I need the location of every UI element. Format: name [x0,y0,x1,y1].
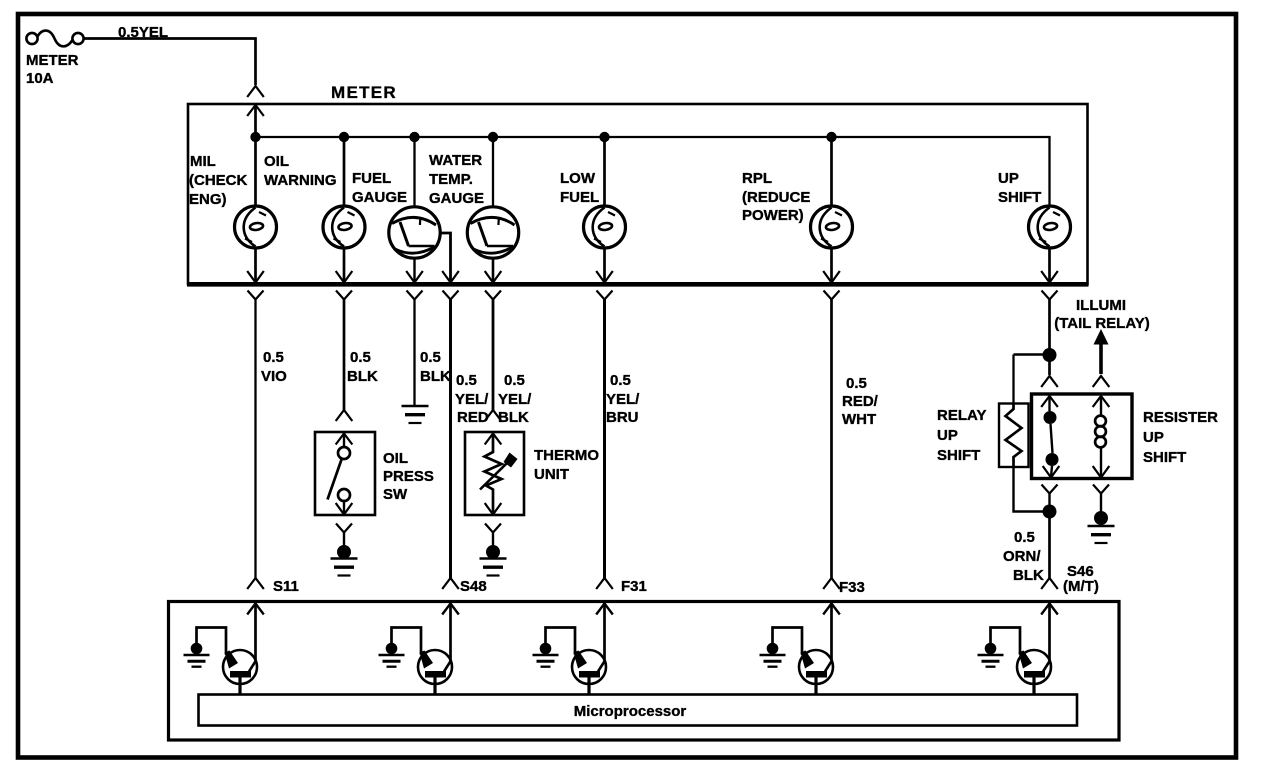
svg-text:0.5: 0.5 [504,372,525,389]
svg-text:0.5: 0.5 [1014,529,1035,546]
transistor Q2 (S48 driver) with base ground [379,603,459,696]
wire 0.5 YEL/BLK to thermo unit [492,299,495,410]
svg-text:GAUGE: GAUGE [429,190,484,207]
lamp MIL (CHECK ENG) [235,206,277,248]
ground (meter case) [402,406,429,423]
connector (male) arrow into METER box [247,105,264,116]
wire 0.5YEL from fuse to METER box [84,39,256,86]
connector below thermo unit [485,524,501,533]
connector below box ground wire [407,291,423,300]
wire OIL WARNING lamp to box edge [343,247,346,282]
svg-text:(CHECK: (CHECK [189,172,247,189]
svg-text:0.5: 0.5 [420,349,441,366]
lamp OIL WARNING [323,206,365,248]
transistor Q5 (S46 driver) with base ground [978,603,1058,696]
connector below box wire F33 [824,291,840,300]
svg-text:METER: METER [26,52,79,69]
ground ball thermo [486,545,500,559]
lamp UP SHIFT [1029,206,1071,248]
svg-text:SHIFT: SHIFT [1143,449,1186,466]
svg-text:YEL/: YEL/ [606,391,640,408]
wire 0.5 BLK to ground [413,299,415,405]
svg-text:SHIFT: SHIFT [998,189,1041,206]
wire bus to RPL lamp [830,137,833,207]
OIL PRESS SW box [315,432,375,515]
transistor Q4 (F33 driver) with base ground [760,603,840,696]
wire up shift ball to register connector [1048,361,1051,375]
gauge WATER TEMP. GAUGE [467,207,518,258]
svg-text:RESISTER: RESISTER [1143,409,1218,426]
ground oil press [331,559,358,576]
wire register right to ground [1100,494,1102,513]
svg-text:YEL/: YEL/ [498,391,532,408]
transistor Q3 (F31 driver) with base ground [533,603,613,696]
svg-text:ILLUMI: ILLUMI [1076,297,1126,314]
svg-text:0.5: 0.5 [350,349,371,366]
connector above register box left [1041,376,1058,387]
svg-text:10A: 10A [26,70,54,87]
wire register to lower ball [1048,494,1050,506]
svg-text:METER: METER [331,83,397,102]
svg-text:RELAY: RELAY [937,407,986,424]
wire MIL lamp to box edge [254,247,257,282]
svg-text:BLK: BLK [420,368,451,385]
wire up shift lamp to relay node [1048,299,1051,349]
METER box [188,104,1088,284]
svg-text:BLK: BLK [498,409,529,426]
connector below box wire up shift [1042,291,1058,300]
svg-text:S48: S48 [460,578,487,595]
ground ball register [1094,511,1108,525]
wire bus to MIL lamp [254,137,257,207]
svg-text:TEMP.: TEMP. [429,171,473,188]
register REGISTER UP SHIFT box [1032,394,1133,479]
svg-text:VIO: VIO [261,368,287,385]
svg-text:RPL: RPL [742,170,772,187]
ground thermo [480,559,507,576]
wire relay branch horizontal top [1014,353,1047,355]
wire 0.5 RED/WHT [830,299,833,578]
wire to ground ball [343,533,345,547]
connector below box wire oil press [336,291,352,300]
THERMO UNIT entry arrow [485,434,502,445]
node junction dots on bus [250,132,260,142]
wire 0.5 VIO [254,299,256,578]
svg-text:WHT: WHT [842,411,876,428]
svg-text:SHIFT: SHIFT [937,447,980,464]
wire FUEL GAUGE right tap [440,233,451,282]
wire RPL lamp to box edge [830,247,833,282]
svg-text:GAUGE: GAUGE [352,189,407,206]
Microprocessor box [169,602,1120,741]
svg-text:(REDUCE: (REDUCE [742,189,810,206]
svg-text:F33: F33 [839,579,865,596]
svg-text:FUEL: FUEL [352,170,391,187]
connector (female) at METER box top [247,86,264,97]
THERMO UNIT box [465,432,524,515]
svg-text:UP: UP [937,427,958,444]
wire 0.5 YEL/RED [449,299,452,578]
fuse METER 10A [26,31,83,47]
svg-text:THERMO: THERMO [534,447,599,464]
svg-text:(TAIL RELAY): (TAIL RELAY) [1054,315,1150,332]
node ball orn/blk [1043,505,1057,519]
register entry arrow right [1093,396,1110,407]
svg-text:0.5: 0.5 [846,375,867,392]
bus wire inside METER [256,137,1050,207]
wire from entry to bus [254,105,257,137]
svg-text:BLK: BLK [347,368,378,385]
svg-text:(M/T): (M/T) [1063,578,1099,595]
svg-text:UP: UP [1143,429,1164,446]
node ball up shift / relay branch [1043,348,1057,362]
ground register [1088,526,1115,543]
connector into microprocessor F33 [823,578,840,589]
connector below box wire thermo [485,291,501,300]
wire bus to LOW FUEL lamp [603,137,606,207]
connector below register box right [1093,485,1109,494]
svg-text:LOW: LOW [560,170,596,187]
svg-text:RED: RED [457,409,489,426]
register switch [1048,396,1050,411]
connector below oil press switch [336,524,352,533]
svg-text:WATER: WATER [429,152,482,169]
THERMO UNIT: connector above [485,410,502,421]
relay coil (resistor zigzag) [1006,404,1022,467]
svg-text:0.5YEL: 0.5YEL [118,24,168,41]
wire FUEL GAUGE bottom to box edge [413,258,415,282]
svg-text:F31: F31 [621,578,647,595]
wire 0.5 YEL/BRU [603,299,606,578]
THERMO UNIT thermistor [485,434,502,515]
wire relay coil vertical [1012,355,1014,405]
connector above register box right [1093,376,1110,387]
wire to ground ball [492,533,494,547]
connector into microprocessor S48 [442,578,459,589]
svg-text:S11: S11 [273,578,299,595]
wire 0.5 ORN/BLK [1048,518,1051,578]
svg-text:BLK: BLK [1013,567,1044,584]
svg-text:MIL: MIL [190,153,216,170]
transistor Q1 (S11 driver) with base ground [184,603,264,696]
wire UP SHIFT lamp to box edge [1048,247,1051,282]
OIL PRESS SW switch [343,434,345,448]
svg-text:Microprocessor: Microprocessor [574,703,687,720]
connector into microprocessor S46 [1041,578,1058,589]
svg-text:0.5: 0.5 [610,372,631,389]
lamp RPL (REDUCE POWER) [811,206,853,248]
connector into microprocessor S11 [247,578,264,589]
ground ball oil press [337,545,351,559]
ILLUMI arrow to tail relay [1094,329,1109,345]
svg-text:WARNING: WARNING [264,172,337,189]
svg-text:UP: UP [998,170,1019,187]
svg-text:ORN/: ORN/ [1003,548,1041,565]
svg-text:SW: SW [383,486,408,503]
svg-text:PRESS: PRESS [383,468,434,485]
svg-text:0.5: 0.5 [456,372,477,389]
svg-text:ENG): ENG) [189,191,227,208]
svg-text:FUEL: FUEL [560,189,599,206]
register coil [1100,396,1102,415]
register entry arrow left [1041,396,1058,407]
Microprocessor inner box [199,695,1078,726]
svg-text:OIL: OIL [383,450,408,467]
svg-text:OIL: OIL [264,153,289,170]
relay RELAY UP SHIFT box [999,404,1029,468]
wire relay to lower node [1014,467,1047,512]
svg-text:UNIT: UNIT [534,466,569,483]
wire bus to FUEL GAUGE [413,137,415,208]
connector below box wire S48 [443,291,459,300]
svg-text:0.5: 0.5 [263,349,284,366]
OIL PRESS SW entry arrow [336,434,353,445]
svg-text:POWER): POWER) [742,207,804,224]
wire bus to OIL WARNING lamp [343,137,346,207]
wire LOW FUEL lamp to box edge [603,247,606,282]
connector into microprocessor F31 [596,578,613,589]
connector below register box left [1042,485,1058,494]
wire bus to WATER TEMP GAUGE [492,137,494,208]
gauge FUEL GAUGE [389,207,440,258]
wire WATER TEMP GAUGE to box edge [492,258,495,282]
OIL PRESS SW: connector above [336,410,353,421]
svg-text:YEL/: YEL/ [455,391,489,408]
connector below box wire S11 [248,291,264,300]
wire 0.5 BLK to oil press switch [343,299,346,410]
lamp LOW FUEL [584,206,626,248]
connector below box wire F31 [597,291,613,300]
svg-text:RED/: RED/ [842,393,879,410]
svg-text:BRU: BRU [606,409,639,426]
